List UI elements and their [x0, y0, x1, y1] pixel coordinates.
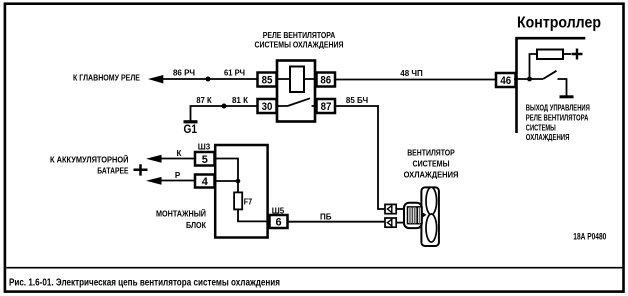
- pin 85 box: [258, 73, 277, 87]
- wire 86РЧ/61РЧ to main relay: [162, 78, 258, 80]
- svg-text:Контроллер: Контроллер: [517, 15, 601, 32]
- svg-text:F7: F7: [244, 198, 253, 207]
- wire resistor to +: [563, 53, 571, 55]
- svg-text:4: 4: [202, 176, 209, 188]
- wire resistor left lead down to node: [530, 54, 538, 80]
- montage block body: [215, 145, 267, 238]
- plus terminal (controller): [572, 49, 583, 60]
- svg-text:86: 86: [320, 75, 331, 87]
- pin 46 box: [496, 73, 516, 87]
- svg-text:G1: G1: [184, 124, 198, 136]
- node on 87К wire: [222, 104, 227, 109]
- svg-text:87 К: 87 К: [196, 96, 211, 105]
- svg-text:Рис. 1.6-01. Электрическая цеп: Рис. 1.6-01. Электрическая цепь вентилят…: [9, 278, 280, 289]
- wire coil leads: [277, 78, 316, 80]
- svg-text:К: К: [177, 149, 182, 158]
- svg-text:РЕЛЕ ВЕНТИЛЯТОРА: РЕЛЕ ВЕНТИЛЯТОРА: [526, 114, 589, 123]
- svg-text:48 ЧП: 48 ЧП: [400, 69, 423, 78]
- svg-text:85: 85: [262, 75, 273, 87]
- plus terminal (battery): [134, 164, 148, 175]
- svg-text:К ГЛАВНОМУ РЕЛЕ: К ГЛАВНОМУ РЕЛЕ: [73, 73, 141, 82]
- svg-text:ПБ: ПБ: [320, 213, 332, 222]
- wire Р battery to pin4: [161, 180, 195, 182]
- svg-text:ОХЛАЖДЕНИЯ: ОХЛАЖДЕНИЯ: [526, 133, 570, 142]
- svg-text:Ш3: Ш3: [198, 143, 211, 152]
- wire through fuse to pin6: [238, 181, 270, 221]
- controller U1 outline (top-left corner bracket): [517, 38, 586, 133]
- svg-text:МОНТАЖНЫЙ: МОНТАЖНЫЙ: [156, 209, 206, 218]
- fan blade upper: [426, 187, 437, 214]
- relay switch contact: [277, 105, 317, 107]
- fan connector pin 2: [385, 218, 396, 227]
- svg-text:СИСТЕМЫ: СИСТЕМЫ: [412, 160, 449, 169]
- pin Ш3-4 box: [195, 175, 215, 188]
- motor shaft hub: [422, 212, 427, 218]
- svg-text:РЕЛЕ ВЕНТИЛЯТОРА: РЕЛЕ ВЕНТИЛЯТОРА: [263, 31, 336, 40]
- svg-text:Р: Р: [175, 171, 181, 180]
- svg-text:ОХЛАЖДЕНИЯ: ОХЛАЖДЕНИЯ: [404, 171, 459, 180]
- relay coil: [290, 67, 304, 93]
- wire ПБ pin6 to fan: [288, 221, 386, 223]
- svg-text:6: 6: [275, 216, 281, 228]
- wire connector2 to motor: [396, 222, 404, 224]
- pin 87 box: [317, 99, 336, 113]
- fan connector pin 1: [385, 204, 396, 213]
- fan blade lower: [426, 214, 437, 242]
- fuse F7: [234, 192, 242, 209]
- node on 86РЧ wire: [206, 77, 211, 82]
- svg-text:81 К: 81 К: [232, 96, 248, 105]
- svg-text:87: 87: [321, 101, 332, 113]
- wire pin46 to node: [514, 78, 543, 80]
- switch fixed contact to ground: [558, 79, 567, 96]
- pin Ш5-6 box: [270, 215, 288, 228]
- svg-text:46: 46: [500, 75, 511, 87]
- svg-text:30: 30: [262, 101, 273, 113]
- node at fuse top: [236, 179, 241, 184]
- svg-text:18А Р0480: 18А Р0480: [573, 232, 606, 242]
- wire 87К/81К from ground to pin30: [191, 106, 258, 121]
- fan shroud: [421, 187, 439, 246]
- pin 86 box: [317, 73, 336, 87]
- arrow to main relay: [148, 75, 163, 84]
- wire connector1 to motor: [396, 208, 404, 210]
- fan motor body: [404, 203, 422, 228]
- relay K1 body: [277, 61, 315, 122]
- wire 48ЧП relay86 to controller46: [335, 79, 496, 81]
- pin Ш3-5 box: [195, 152, 215, 166]
- wire К battery to pin5: [161, 158, 195, 160]
- wire 85БЧ relay87 to fan: [335, 106, 385, 209]
- svg-text:СИСТЕМЫ: СИСТЕМЫ: [526, 123, 556, 132]
- svg-text:СИСТЕМЫ ОХЛАЖДЕНИЯ: СИСТЕМЫ ОХЛАЖДЕНИЯ: [255, 41, 344, 50]
- caption separator line: [6, 267, 622, 269]
- node junction at controller switch: [527, 77, 532, 82]
- svg-text:5: 5: [202, 154, 208, 166]
- relay switch arm: [288, 98, 311, 106]
- wire inside block from pin5: [215, 159, 239, 182]
- svg-text:85 БЧ: 85 БЧ: [346, 96, 369, 105]
- switch arm (controller output transistor symbol): [543, 71, 557, 79]
- svg-text:К АККУМУЛЯТОРНОЙ: К АККУМУЛЯТОРНОЙ: [50, 156, 129, 165]
- ground bar (controller): [560, 95, 574, 98]
- motor stator hatch: [408, 207, 422, 224]
- svg-text:61 РЧ: 61 РЧ: [224, 68, 245, 77]
- arrow К to battery: [146, 155, 162, 163]
- pin 30 box: [258, 99, 277, 113]
- wire inside block from pin4: [215, 180, 239, 182]
- svg-text:БЛОК: БЛОК: [186, 221, 206, 230]
- ground G1 bar: [184, 120, 198, 123]
- resistor (controller pull-up): [537, 50, 563, 60]
- svg-text:86 РЧ: 86 РЧ: [173, 69, 195, 78]
- svg-text:ВЕНТИЛЯТОР: ВЕНТИЛЯТОР: [407, 149, 455, 158]
- svg-text:ВЫХОД УПРАВЛЕНИЯ: ВЫХОД УПРАВЛЕНИЯ: [526, 104, 590, 113]
- svg-text:БАТАРЕЕ: БАТАРЕЕ: [97, 167, 129, 176]
- arrow Р to battery: [146, 177, 162, 185]
